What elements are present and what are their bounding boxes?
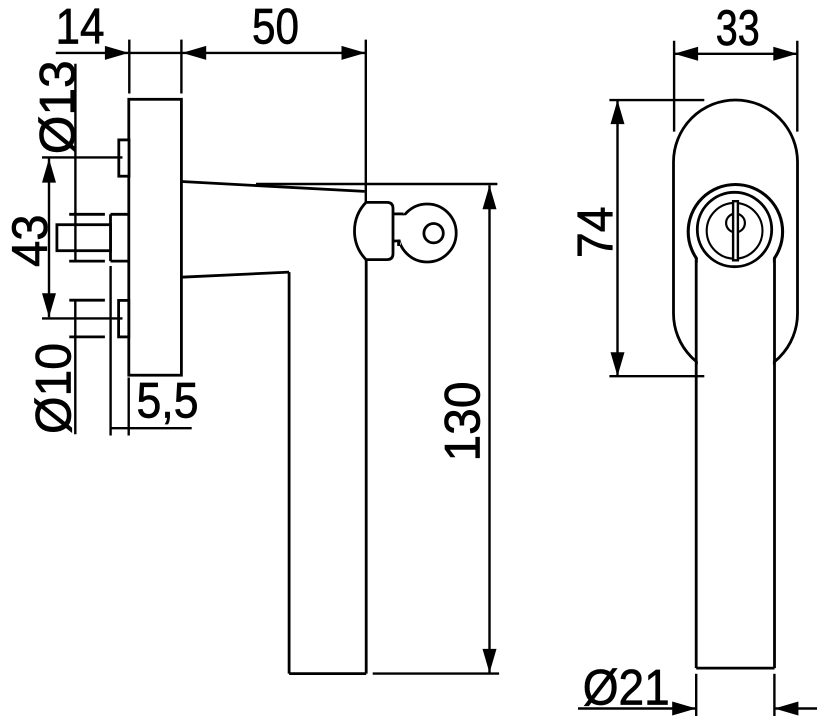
arrow 14 right <box>105 46 129 60</box>
lock cylinder housing (side view) <box>354 202 393 259</box>
extension line dia21 left <box>695 674 697 716</box>
key slot <box>733 201 738 260</box>
svg-text:43: 43 <box>2 215 58 268</box>
key shaft top edge <box>393 212 404 215</box>
arrowheads front view <box>611 47 799 716</box>
arrowheads side view <box>42 46 497 673</box>
spindle neck bottom edge <box>111 260 129 263</box>
handle grip left edge (side view) <box>288 272 291 673</box>
svg-text:Ø10: Ø10 <box>26 343 82 434</box>
spindle neck left edge <box>109 214 112 261</box>
key shoulder notch <box>397 241 400 246</box>
spindle neck top edge <box>111 213 129 216</box>
bottom screw collar top edge <box>69 299 105 302</box>
bottom screw centre line <box>42 317 123 319</box>
grip right edge (front view) <box>773 258 776 669</box>
bottom screw collar bottom edge <box>69 335 105 338</box>
svg-text:Ø13: Ø13 <box>30 60 86 154</box>
dimension line 130 <box>488 185 490 673</box>
key head circle (side view) <box>398 204 456 262</box>
key shaft cover <box>395 215 407 239</box>
cylinder middle circle <box>697 192 771 266</box>
grip bottom edge (front view) <box>696 667 774 670</box>
plate (side view rosette) <box>129 99 182 375</box>
arrow 33 right <box>773 47 797 61</box>
handle grip bottom edge (side view) <box>289 672 366 675</box>
svg-text:50: 50 <box>252 0 299 54</box>
key shaft bottom edge <box>393 240 399 243</box>
handle neck bottom edge <box>181 272 289 277</box>
grip left edge (front view) <box>695 258 698 669</box>
cylinder rotor circle <box>707 203 763 259</box>
tick line 74 bottom <box>609 375 704 377</box>
svg-text:5,5: 5,5 <box>137 373 199 429</box>
tick line 74 top <box>609 99 704 101</box>
square spindle 7mm <box>57 225 111 251</box>
extension line handle right (50) <box>365 40 367 203</box>
extension line 130 top <box>256 183 497 185</box>
arrow dia21 right <box>672 702 696 716</box>
handle grip right edge (side view) <box>365 260 368 674</box>
dimension line dia21 right part <box>774 707 817 709</box>
bottom screw head <box>119 300 129 337</box>
grip cover <box>698 255 773 667</box>
dimension line 5,5 <box>111 427 192 429</box>
top screw head <box>119 140 129 176</box>
extension line 33 right <box>796 41 798 132</box>
extension line plate left <box>128 40 130 94</box>
svg-text:33: 33 <box>716 0 760 56</box>
spindle collar top edge <box>69 213 105 216</box>
dimension line 33 <box>674 53 797 55</box>
extension line 130 bottom <box>373 672 499 674</box>
cylinder inner circle <box>726 214 745 233</box>
arrow 74 up <box>611 100 625 124</box>
extension line plate right <box>180 40 182 94</box>
dimension line dia21 left part <box>578 707 696 709</box>
arrow 130 up <box>483 185 497 209</box>
extension line 33 left <box>673 41 675 132</box>
handle neck top edge <box>181 182 364 192</box>
arrow 74 down <box>611 352 625 376</box>
dimension line 14 and 50 <box>56 52 366 54</box>
svg-text:74: 74 <box>567 207 623 259</box>
extension line dia21 right <box>773 674 775 716</box>
arrow 33 left <box>674 47 698 61</box>
arrow 50 left <box>182 46 206 60</box>
extension line 5,5 left <box>109 266 111 436</box>
spindle collar bottom edge <box>69 260 105 263</box>
cylinder boss outer circle <box>688 185 782 279</box>
arrow 130 down <box>483 649 497 673</box>
arrow 43 up <box>42 159 56 183</box>
svg-text:14: 14 <box>56 0 105 55</box>
arrow 43 down <box>42 293 56 317</box>
arrow dia21 left <box>774 702 798 716</box>
dimension line 74 <box>616 100 618 376</box>
top screw centre line <box>42 156 123 158</box>
svg-text:130: 130 <box>435 382 491 462</box>
extension line 5,5 right <box>127 378 129 436</box>
key shoulder notch clearance <box>396 242 401 245</box>
key hole (side view) <box>424 224 443 243</box>
svg-text:Ø21: Ø21 <box>583 660 670 716</box>
dimension line 43 <box>48 159 50 318</box>
oval rosette (front view) <box>674 100 798 376</box>
leader line dia13 <box>74 64 76 261</box>
arrow 50 right <box>342 46 366 60</box>
leader line dia10 <box>74 300 76 434</box>
